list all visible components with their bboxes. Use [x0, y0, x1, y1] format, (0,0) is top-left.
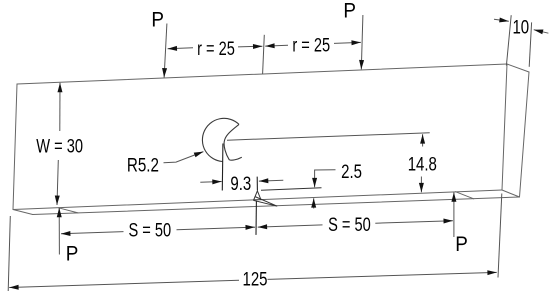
- wire S50 dim line 2 left: [258, 225, 323, 227]
- wire 14.8 dim arrow up: [422, 134, 424, 146]
- svg-text:P: P: [66, 243, 79, 266]
- wire 125 extension line left: [8, 216, 10, 291]
- svg-text:r = 25: r = 25: [292, 33, 330, 56]
- wire 125 extension line right: [498, 194, 502, 278]
- node crack center line lower: [255, 201, 257, 235]
- svg-text:125: 125: [242, 268, 267, 290]
- wire beam back bottom edge: [33, 197, 520, 215]
- wire r25 dim line 2 right: [334, 42, 361, 43]
- wire beam bottom left depth edge: [13, 210, 33, 215]
- notch inner arc: [224, 124, 242, 160]
- wire S50 dim line 1 right: [177, 227, 255, 230]
- wire 9.3 dim arrow right: [259, 179, 283, 182]
- svg-text:P: P: [151, 9, 164, 32]
- svg-text:W = 30: W = 30: [36, 134, 83, 157]
- svg-text:9.3: 9.3: [230, 172, 251, 194]
- svg-text:P: P: [343, 0, 356, 23]
- wire center extension line top: [263, 35, 265, 74]
- svg-text:R5.2: R5.2: [127, 154, 159, 176]
- crack wedge on bottom face: [253, 197, 277, 207]
- wire beam back right edge: [520, 72, 530, 197]
- node hole center vertical line: [221, 144, 224, 191]
- wire 2.5 dim arrow up: [313, 198, 315, 208]
- wire beam front bottom edge left part: [13, 200, 254, 210]
- wire beam left edge: [13, 84, 17, 210]
- wire load P2 arrow: [361, 15, 363, 69]
- wire 9.3 dim arrow left: [200, 181, 221, 184]
- wire support P4 arrow: [453, 192, 455, 237]
- wire 125 dim line right: [268, 272, 497, 279]
- notch outer arc R5.2: [202, 118, 239, 161]
- wire beam top edge: [17, 64, 507, 84]
- wire W30 dim arrow up: [59, 83, 61, 131]
- wire 10 dim extension line front: [506, 15, 511, 65]
- wire R5.2 leader: [164, 152, 204, 163]
- wire right support line: [456, 192, 474, 199]
- node hole center horizontal line: [227, 133, 430, 140]
- wire beam top right depth edge: [507, 64, 529, 72]
- wire W30 dim arrow down: [57, 160, 58, 205]
- svg-text:S = 50: S = 50: [128, 218, 171, 241]
- wire S50 dim line 2 right: [375, 221, 453, 224]
- svg-text:P: P: [455, 233, 468, 256]
- node crack center line upper: [256, 177, 258, 191]
- svg-text:14.8: 14.8: [408, 153, 437, 175]
- wire beam end bottom edge: [502, 190, 520, 197]
- svg-text:S = 50: S = 50: [328, 213, 371, 236]
- wire 14.8 dim arrow down: [420, 177, 422, 193]
- wire r25 dim line 1 left: [168, 48, 193, 49]
- wire beam right front edge: [502, 64, 507, 190]
- svg-text:2.5: 2.5: [341, 160, 362, 182]
- wire 10 dim extension line back: [529, 22, 531, 66]
- wire r25 dim line 2 left: [265, 44, 288, 47]
- svg-text:r = 25: r = 25: [197, 37, 235, 60]
- wire left support line: [59, 208, 79, 213]
- wire 125 dim line left: [9, 280, 239, 287]
- crack triangle: [254, 191, 261, 200]
- wire r25 dim line 1 right: [238, 45, 262, 48]
- svg-text:10: 10: [512, 16, 529, 38]
- wire S50 dim line 1 left: [61, 232, 124, 234]
- wire 10 dim arrow left: [494, 19, 509, 21]
- wire load P1 arrow: [164, 24, 167, 78]
- crack tip reference line: [261, 188, 322, 191]
- wire beam front bottom edge right part: [261, 190, 502, 200]
- wire 2.5 leader elbow: [315, 170, 336, 188]
- wire support P3 arrow: [58, 208, 60, 255]
- wire 10 dim arrow right: [534, 30, 549, 34]
